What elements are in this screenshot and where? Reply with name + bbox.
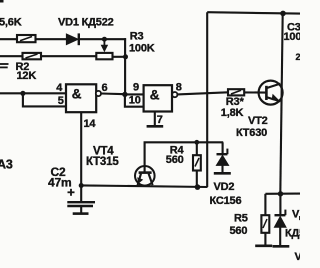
svg-text:&: & [150,88,160,103]
diode VD1 [67,33,79,45]
wire input 2 (left horizontal to R2) [0,55,23,57]
resistor R1 (5,6K) [17,35,36,42]
resistor R4 (560) [193,142,201,187]
resistor R2 (12K) [23,53,42,59]
ground bar R5 [255,245,272,248]
wire emitter node horizontal [265,193,300,195]
wire node B down and to pin 10 [125,94,144,106]
zener diode VD2 КС156 [216,142,228,172]
wire DD1.2 output to R3* [177,92,228,94]
junction dot R3 right [123,54,128,59]
wire node B to pin 9 [125,93,144,95]
ground bar C2 [73,212,89,215]
capacitor C2 (47m) [67,186,95,214]
junction dot C2 top [79,183,84,188]
potentiometer R3 wiper arrow [101,39,107,51]
pin 7 lead [154,112,156,126]
ground bar VD3 [273,245,290,248]
svg-text:R3: R3 [130,31,144,43]
node A junction dot [102,37,107,42]
svg-text:560: 560 [230,225,248,237]
wire branch down to pin 5 [23,93,66,106]
wire vertical node A down to gate inputs [124,38,126,94]
junction dot on rail [280,11,286,17]
svg-text:9: 9 [133,81,139,93]
plus sign C2 [68,189,75,196]
wire rail down left branch (main vertical) [206,12,208,187]
wire VT4 base node top [145,142,224,172]
svg-text:12K: 12K [17,70,37,82]
svg-text:10: 10 [129,95,141,107]
svg-text:6: 6 [102,82,108,94]
svg-text:&: & [72,87,82,102]
resistor R5 (560) [261,194,269,245]
wire input 3 (to DD1.1 pin 4) [0,92,66,94]
svg-text:VД: VД [295,251,301,263]
wire R3* to VT2 base [244,91,266,93]
svg-text:47m: 47m [48,176,71,190]
svg-text:КД5: КД5 [285,228,300,240]
svg-text:VT2: VT2 [248,115,268,127]
svg-text:7: 7 [157,114,163,126]
potentiometer R3 body [96,53,112,59]
junction dot emitter node [278,191,283,196]
svg-text:2: 2 [296,52,301,62]
svg-text:VD2: VD2 [214,181,235,193]
svg-text:100K: 100K [129,43,155,55]
svg-text:A3: A3 [0,158,13,172]
wire rail to VT2 collector and emitter column [280,13,282,194]
svg-text:VD1 КД522: VD1 КД522 [58,17,114,29]
transistor VT2 КТ630 [259,81,283,105]
svg-text:КС156: КС156 [210,195,242,207]
bottom common wire [81,185,207,187]
junction dot R4 top [194,140,199,145]
svg-text:5,6K: 5,6K [0,17,22,29]
wire R2 to R3 left terminal [41,55,96,57]
svg-text:КТ630: КТ630 [236,127,267,139]
pin 14 lead down [80,112,82,186]
svg-text:14: 14 [84,118,97,130]
svg-text:VД: VД [292,209,300,221]
resistor R3* (1,8K) [228,89,244,95]
wire DD1.1 output to node B [101,92,126,95]
zener diode VD3 [274,194,286,245]
top supply rail [207,12,300,13]
junction dot R4 bottom [195,184,201,190]
svg-text:560: 560 [166,154,184,166]
ground bar pin 7 [147,125,164,128]
wire R3 right terminal to vertical [113,56,127,58]
svg-text:1,8K: 1,8K [221,107,244,119]
svg-text:КТ315: КТ315 [86,156,119,168]
svg-text:5: 5 [58,95,64,107]
inversion bubble DD1.2 output [172,92,177,97]
logic gate DD1.2 [144,85,172,111]
transistor VT4 КТ315 [135,166,155,186]
wire input 1 (top left horizontal) [0,38,17,40]
node B junction dot [122,92,127,97]
scan speck top-left corner [0,0,4,3]
logic gate DD1.1 [66,84,96,112]
svg-text:R5: R5 [234,212,248,224]
junction dot on input 3 [20,91,25,96]
svg-text:100: 100 [284,31,301,43]
inversion bubble DD1.1 output [96,91,101,96]
ground bar VD2 [214,172,231,175]
wire R1 to VD1 [36,38,67,40]
wire VD1 to node A corner [80,38,126,40]
svg-text:8: 8 [176,81,182,93]
capacitor plates mark at left edge [0,64,9,67]
